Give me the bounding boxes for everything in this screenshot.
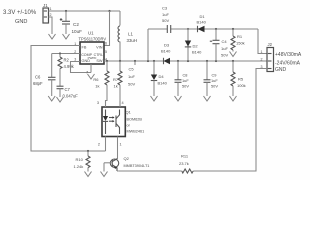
transistor Q2 [104,156,149,172]
svg-text:C2: C2 [73,22,79,27]
svg-text:GND: GND [275,67,287,73]
op IC U1 TPS61170 [74,31,107,65]
svg-text:0.047uF: 0.047uF [63,94,79,99]
wire SW rail (-24V rail) [104,60,267,62]
svg-text:50V: 50V [221,53,228,58]
svg-text:2: 2 [261,58,263,62]
svg-text:J2: J2 [268,42,273,47]
svg-text:1uF: 1uF [162,12,169,17]
svg-text:B140: B140 [161,49,171,54]
ground (R10) [85,172,92,177]
capacitor C2 [60,10,82,34]
svg-text:1: 1 [120,143,122,147]
svg-text:50V: 50V [162,18,169,23]
ground (C6) [48,96,55,101]
capacitor C9 [204,60,219,96]
svg-text:D3: D3 [164,43,170,48]
wire top rail 3.3V [49,10,121,12]
ground (D4) [151,96,158,101]
svg-text:J1: J1 [43,3,48,8]
diode D4 [151,60,168,96]
svg-text:R6: R6 [93,77,99,82]
svg-text:VIN: VIN [96,46,103,50]
svg-text:100k: 100k [237,83,246,88]
svg-text:B140: B140 [192,50,202,55]
connector J1 [43,3,52,23]
svg-text:68pF: 68pF [33,81,43,86]
capacitor C8 [175,60,190,96]
svg-text:1.24k: 1.24k [74,164,84,169]
svg-text:1uF: 1uF [128,74,135,79]
wire vertical SW to top line [147,29,149,62]
svg-text:C7: C7 [65,87,71,92]
svg-text:1k: 1k [95,84,99,89]
svg-text:D1: D1 [200,14,206,19]
resistor R5 [231,60,246,96]
wire J1 pin2 to ground [49,17,53,34]
svg-text:1uF: 1uF [221,46,228,51]
diode D3 [161,43,171,65]
svg-text:1uF: 1uF [182,78,189,83]
node VIN label 3.3V [3,10,37,25]
svg-text:2: 2 [98,143,100,147]
svg-text:BOM62B: BOM62B [127,118,143,122]
svg-text:R7: R7 [113,77,119,82]
wire Q2 emitter to bottom line [117,170,118,172]
inductor L1 [118,11,137,61]
wire +48V top line [148,28,167,30]
svg-text:D2: D2 [193,44,199,49]
svg-text:B140: B140 [197,20,207,25]
svg-text:1: 1 [50,7,52,11]
svg-text:Q1: Q1 [126,110,132,115]
ground (R1) [230,52,237,57]
svg-text:5: 5 [105,50,107,54]
svg-text:50V: 50V [128,82,135,87]
diode D1 [197,14,207,32]
diode D2 [185,28,202,62]
wire U1 pin3 + pin7 to ground [71,62,92,75]
capacitor C5 [128,60,136,87]
svg-text:150k: 150k [236,41,245,46]
capacitor C4 [210,28,229,62]
ground (C2) [63,34,70,39]
svg-text:R2: R2 [64,58,70,63]
svg-text:3: 3 [97,101,99,105]
svg-text:D4: D4 [159,74,165,79]
svg-text:C5: C5 [129,67,135,72]
svg-text:50V: 50V [211,84,218,89]
capacitor C7 [57,86,79,98]
svg-text:50V: 50V [182,84,189,89]
svg-text:23.7k: 23.7k [179,161,189,166]
svg-text:2: 2 [50,13,52,17]
wire J2 GND down-left [193,69,267,172]
ground (R5) [230,96,237,101]
svg-text:+48V/30mA: +48V/30mA [275,52,302,58]
svg-text:B140: B140 [158,81,168,86]
svg-text:C3: C3 [162,6,168,11]
ground (C9) [204,96,211,101]
capacitor C6 [33,54,56,97]
svg-text:GND: GND [15,19,27,25]
svg-text:R5: R5 [238,77,244,82]
svg-text:1: 1 [261,50,263,54]
svg-text:1uF: 1uF [211,78,218,83]
svg-text:6: 6 [105,42,107,46]
svg-text:C8: C8 [183,73,188,78]
svg-text:TPS61170DRV: TPS61170DRV [79,37,107,42]
capacitor C3 [162,6,171,34]
svg-text:L1: L1 [128,32,133,37]
ground (C7) [57,97,64,102]
svg-text:4.99k: 4.99k [64,64,75,69]
resistor R10 [74,150,91,172]
wire FB line + left loop down [31,46,106,152]
svg-text:MWB2461: MWB2461 [127,130,145,134]
svg-text:R11: R11 [181,154,189,159]
svg-text:R10: R10 [76,157,84,162]
wire COMP [52,53,80,55]
optocoupler Q1 [97,101,144,159]
svg-text:C9: C9 [212,73,217,78]
svg-text:C6: C6 [35,75,41,80]
connector J2 [261,42,302,73]
wire VIN drop to U1 pin6 [104,10,111,46]
resistor R1 [231,28,245,52]
svg-text:U1: U1 [88,31,94,36]
ground (C8) [175,96,182,101]
resistor R2 [58,52,75,86]
svg-text:SW: SW [96,59,103,63]
svg-text:Q2: Q2 [124,156,130,161]
ground (Q2) [101,172,108,177]
svg-text:-24V/60mA: -24V/60mA [275,60,301,66]
svg-text:4: 4 [122,101,124,105]
resistor R6 [93,60,109,107]
ground (J1) [49,34,56,39]
resistor R11 [118,154,193,174]
svg-text:C4: C4 [222,39,228,44]
svg-text:10uF: 10uF [72,29,83,34]
svg-text:PWPD: PWPD [88,56,97,60]
svg-text:3: 3 [74,58,76,62]
svg-text:FB: FB [82,46,87,50]
ground (U1) [88,74,95,79]
svg-text:33uH: 33uH [127,38,138,43]
svg-text:MMBT3904LT1: MMBT3904LT1 [124,164,150,168]
svg-text:1k: 1k [114,84,118,89]
svg-text:R1: R1 [237,34,243,39]
svg-text:3.3V +/-10%: 3.3V +/-10% [3,10,37,16]
resistor R7 [113,61,122,107]
